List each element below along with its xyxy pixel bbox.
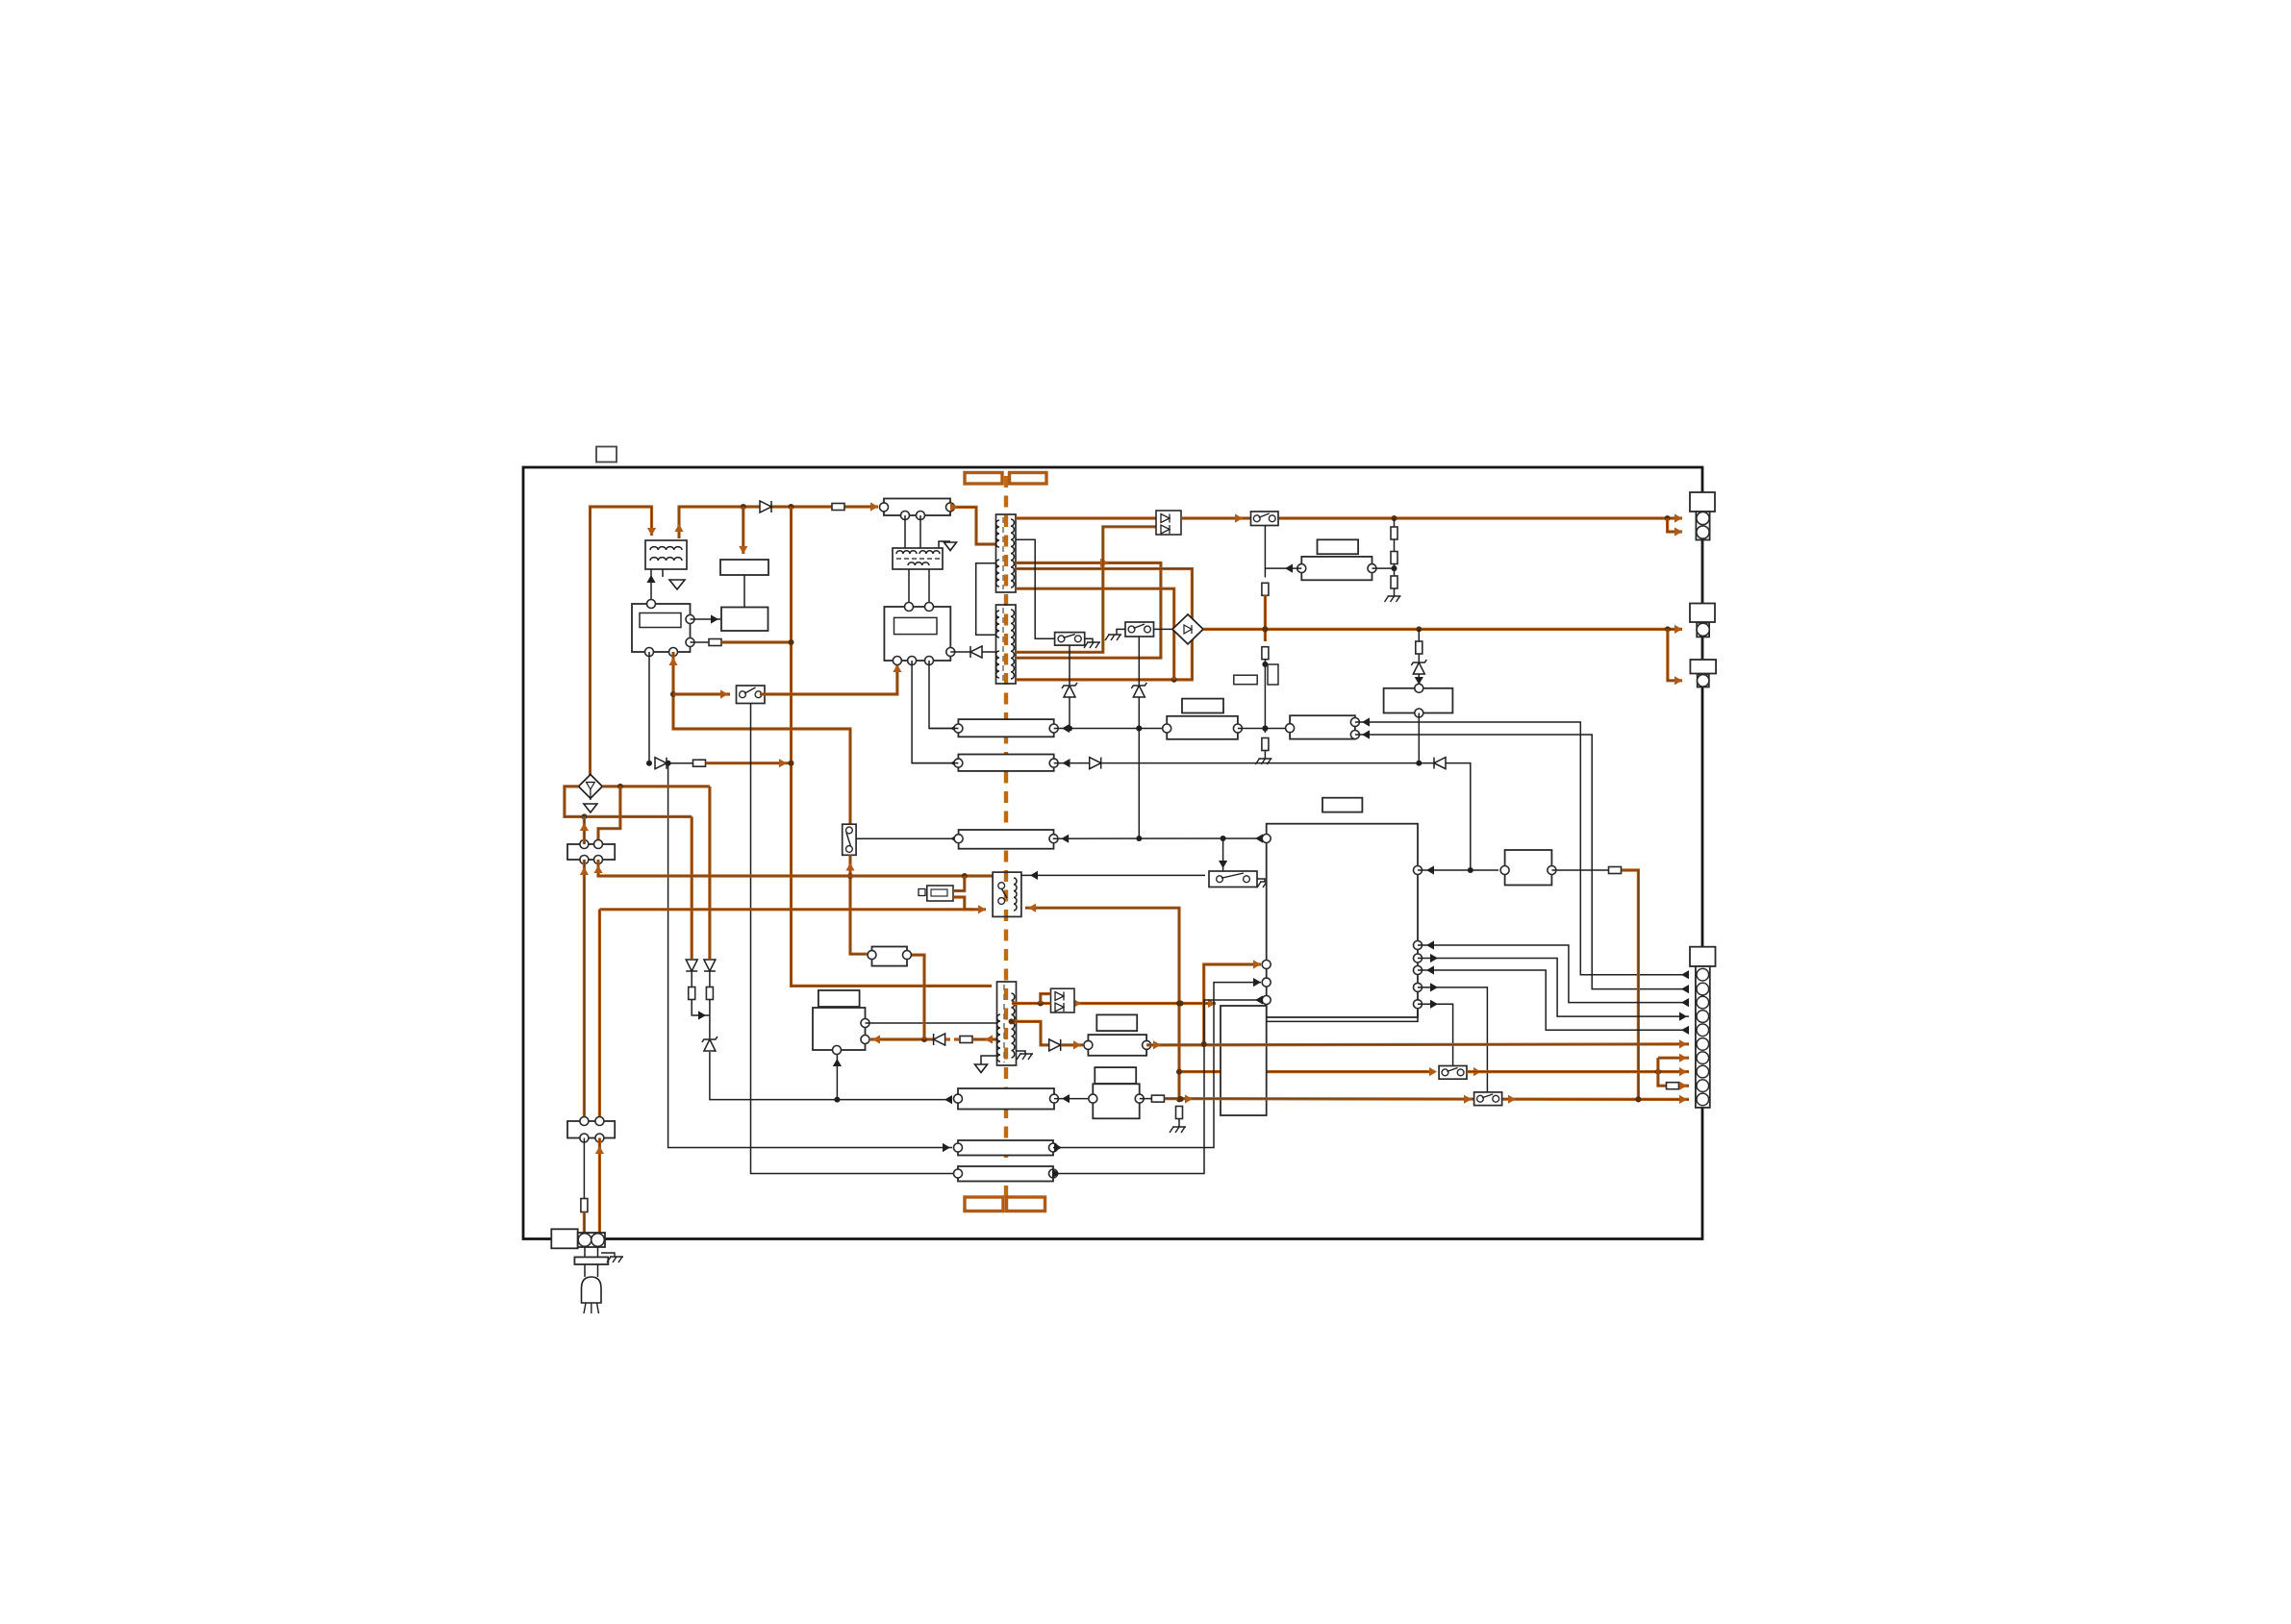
connector CN502 outline [567, 844, 615, 860]
diode D507 on system line [1434, 758, 1446, 769]
pin J506 left [954, 1143, 963, 1152]
resistor R509 [1391, 576, 1397, 588]
ground frame under D508 [584, 804, 597, 812]
ground at R506 [1255, 759, 1271, 764]
diode D506 on system line [1090, 758, 1101, 769]
wire CN-D pin1 line [1355, 717, 1689, 979]
wire CN-D pin2 line [1355, 730, 1689, 993]
wire R508-R509 [1392, 564, 1397, 577]
wire B507 to fuse [1551, 869, 1608, 871]
wire relay bus 2 [599, 905, 986, 913]
wire S508 to B508 [845, 855, 872, 959]
wire mid rail branch to CN-C [1668, 629, 1682, 685]
label box IC601 [1322, 798, 1362, 812]
ground at inlet [607, 1257, 623, 1262]
wire 16V rail to S506 [1179, 1070, 1432, 1073]
wire +B rail branch to CN-A pin2 [1668, 518, 1682, 537]
wire R505 to trimmer [1262, 660, 1268, 734]
wire branch to S505 [1219, 838, 1227, 871]
wire DD2 output to IC602 [1073, 999, 1216, 1008]
wire T505 to D513 main [1012, 1001, 1051, 1007]
wire S504 ground hook [1085, 638, 1093, 642]
wire border link B-C [1701, 637, 1703, 660]
pin J509 right [1050, 1094, 1059, 1103]
pin J505 left [954, 759, 963, 767]
pin J505 right [1049, 759, 1058, 767]
wire S505 left feed [1021, 871, 1205, 880]
wire TH501 stub1 [953, 876, 965, 891]
module B507 [1505, 850, 1552, 886]
ferrite filter block [574, 1257, 608, 1264]
node secondary bar bottom-right [1007, 1197, 1045, 1212]
wire R509 to ground [1394, 588, 1396, 596]
harness J511 [959, 830, 1054, 849]
pin J506 right [1049, 1143, 1058, 1152]
arrow into S507 [1464, 1095, 1472, 1104]
schematic border frame [523, 467, 1702, 1239]
wire J501 right to divider [1372, 567, 1395, 569]
wire ZD504 to J509 [710, 1052, 952, 1104]
wire S505 ground hook [1257, 879, 1265, 882]
wire ZD501 to B506 [1415, 674, 1423, 688]
wire D513 upper hook [1041, 994, 1051, 1004]
wire IC501 to driver box [691, 614, 721, 623]
wire pin8 tail [1467, 1067, 1689, 1076]
pin IC501 right-1 [686, 615, 694, 624]
pin CN501 bottom-1 [901, 512, 910, 520]
wire CN501 down-2 [919, 515, 921, 548]
connector CN-D body [1696, 966, 1710, 1108]
pin J503 right [1233, 724, 1242, 733]
fuse R515 [1151, 1095, 1164, 1102]
wire IC502 feedback-1 [912, 661, 958, 767]
wire S508 sense [856, 835, 958, 843]
wire B506 to system line [1416, 713, 1422, 766]
node primary bar bottom-left [965, 1197, 1003, 1212]
resistor R510 [1416, 641, 1422, 654]
label box CN-D [1690, 947, 1716, 966]
pin IC502 bottom-2 [908, 657, 917, 665]
resistor R507 [1391, 527, 1397, 539]
wire mid rail to CN-B [1203, 625, 1682, 634]
transformer T505 [997, 982, 1017, 1065]
wire R512 to zener [709, 1000, 711, 1038]
diode D511 [934, 1034, 945, 1045]
pin IC601 right-5 [1414, 983, 1422, 991]
label box PS-ERR [1318, 539, 1359, 554]
pin CN502 top-1 [580, 840, 589, 849]
wire S507 control line [1418, 983, 1487, 1092]
wire loop down diode leg2 [708, 787, 711, 959]
wire R510 to ZD501 [1418, 654, 1420, 662]
connector CN-B body [1697, 623, 1709, 637]
pin CN501 left [880, 503, 889, 512]
wire IC601 to B507 [1418, 865, 1498, 874]
label box J510 [1095, 1067, 1136, 1084]
pin J507 right [1049, 1169, 1058, 1178]
wire D508 branch to CN502 [598, 787, 620, 839]
wire CN503 top2 feed [595, 910, 604, 1123]
wire CN501 to T503 primary [950, 503, 996, 544]
wire S501 to converter [760, 664, 902, 694]
zener ZD503 [1062, 683, 1077, 697]
harness J505 [958, 755, 1053, 771]
connector AC inlet [578, 1233, 605, 1247]
wire +B divider [1394, 518, 1396, 527]
relay K502 outline [993, 872, 1021, 916]
module FL501 inlet filter [551, 1229, 577, 1248]
wire IC502 to T504 primary [950, 651, 970, 653]
connector CN-C body [1698, 674, 1709, 687]
wire J503 to S502 chain [1238, 726, 1290, 732]
wire J502 line [1054, 724, 1168, 733]
wire J505 left feed [912, 762, 958, 764]
ground at R509 [1385, 596, 1401, 602]
module IC502 outline [884, 607, 950, 661]
diode D510 [704, 960, 716, 971]
pin CN502 bottom-1 [580, 856, 589, 864]
zener ZD504 [702, 1037, 718, 1051]
ground at S505 [1257, 882, 1273, 887]
wire T502 to M502-2 [928, 569, 930, 607]
harness J502 [958, 719, 1053, 737]
wire R507-R508 [1394, 539, 1396, 552]
wire R504 to R505 [1262, 595, 1268, 641]
label box CN-C [1690, 660, 1716, 674]
wire S506 control line [1418, 1000, 1453, 1066]
pin IC502 bottom-3 [925, 657, 934, 665]
wire IC502 feedback-2 [929, 661, 958, 733]
module B506 outline [1384, 688, 1453, 713]
wire CN502 top1 up [580, 816, 589, 844]
pin J502 left [954, 724, 963, 733]
zener ZD501 [1411, 660, 1426, 674]
module B508 outline [872, 947, 908, 966]
ground at R521 [1170, 1127, 1186, 1133]
pin CN501 bottom-2 [917, 512, 925, 520]
module IC602 driver [1221, 1006, 1267, 1115]
node secondary bar top-right [1010, 473, 1047, 485]
pin CN502 top-2 [594, 840, 603, 849]
resistor R508 [1391, 552, 1397, 564]
pin CN502 bottom-2 [594, 856, 603, 864]
rectifier D505 bridge diamond [1172, 614, 1203, 644]
trimmer VR501 [1268, 664, 1278, 685]
switch S507 [1474, 1092, 1502, 1106]
transformer T503 main [996, 514, 1017, 592]
wire D511 dashed link [945, 1037, 960, 1040]
pin B506 top [1415, 684, 1423, 692]
diode D512 [1049, 1039, 1061, 1051]
wire IC601 sense line [1053, 834, 1263, 842]
wire 5V rail to CN-D pin6 [1146, 1039, 1689, 1049]
wire K501 to Q501 [743, 575, 745, 608]
wire pin7 vertical [1658, 1058, 1666, 1086]
rectifier D508 bridge diamond [579, 775, 603, 801]
switch S506 [1439, 1066, 1467, 1080]
wire system line right [1054, 759, 1471, 870]
wire T505 left frame hook [981, 1056, 997, 1064]
label box VR501 [1234, 675, 1257, 685]
wire T504 sec tap1 up to rectifier [1016, 527, 1156, 653]
harness J504 [1290, 715, 1355, 738]
wire D503 to T504 [982, 651, 996, 653]
wire IC503 drive [870, 1035, 919, 1043]
pin CN501 right [946, 503, 955, 512]
pin IC601 left-4 [1262, 996, 1271, 1005]
rectifier D504 dual diode [1156, 511, 1181, 535]
wire R511 join [692, 1000, 710, 1020]
wire J510 to fuse [1140, 1094, 1157, 1103]
pin B507 left [1500, 866, 1509, 875]
wire border link A-B [1701, 540, 1703, 604]
label box J508 [1096, 1014, 1137, 1031]
wire S502 sense chain [1264, 526, 1266, 578]
switch S505 cover [1209, 871, 1257, 887]
pin CN503 bottom-2 [595, 1134, 604, 1142]
pin IC501 bottom-1 [645, 648, 654, 657]
diode D501 on AC bus [760, 501, 771, 512]
pin IC601 right-2 [1414, 941, 1422, 950]
wire T502 to M502-1 [908, 569, 910, 607]
transformer T504 aux [996, 605, 1017, 684]
wire loop down diode leg1 [691, 816, 693, 959]
pin J503 left [1163, 724, 1171, 733]
connector CN503 outline [567, 1121, 615, 1138]
wire F502 orange drop [1622, 870, 1641, 1102]
switch S504 interlock [1055, 633, 1085, 646]
wire AC live to line filter [591, 507, 657, 775]
connector CN-A body [1696, 512, 1709, 540]
wire D508 right out [602, 784, 710, 789]
pin IC601 left-2 [1262, 961, 1271, 969]
wire S504 lever chain [1069, 645, 1070, 685]
wire T505 secondary ground [1017, 1051, 1026, 1054]
harness J507 [958, 1166, 1053, 1182]
pin IC503 bottom [833, 1046, 842, 1055]
wire CN-D pin4 line [1418, 954, 1689, 1021]
harness J501 [1301, 557, 1372, 580]
pin IC601 right-3 [1414, 954, 1422, 962]
wire K502 coil return [1025, 904, 1182, 1103]
page frame note box [596, 447, 617, 462]
diode D509 [686, 960, 697, 971]
label box J503 [1182, 699, 1223, 713]
thermal protector TH501 [919, 886, 953, 901]
pin IC503 right-1 [861, 1019, 869, 1028]
ground frame under L501 [669, 580, 685, 589]
zener ZD502 [1131, 683, 1146, 697]
wire CN-D pin3 line [1418, 940, 1689, 1007]
wire D512 out [1061, 1040, 1083, 1049]
wire S503 lever chain [1138, 637, 1140, 685]
wire J506 to IC601 [1053, 978, 1261, 1152]
transformer T502 filter [893, 548, 943, 569]
pin CN503 bottom-1 [580, 1134, 589, 1142]
wire F503 to inlet [583, 1212, 586, 1234]
ground at S504 [1084, 642, 1100, 648]
fuse R502 [709, 639, 721, 646]
module IC503 outline [813, 1008, 866, 1050]
pin IC601 left-1 [1262, 835, 1271, 843]
wire D509 chain [691, 971, 692, 987]
harness J508 [1088, 1035, 1146, 1056]
harness J503 [1167, 716, 1238, 739]
pin IC601 left-3 [1262, 978, 1271, 987]
wire J506 left feed [666, 761, 952, 1152]
pin J501 right [1368, 564, 1376, 573]
diode D502 [655, 758, 667, 769]
wire branch to relay coil box [739, 507, 747, 554]
rectifier D513 dual diode [1051, 988, 1075, 1012]
fuse R513 [960, 1037, 972, 1043]
fuse R514 [1667, 1083, 1679, 1089]
wire IC501 right-2 feed [691, 641, 711, 643]
wire R506 to ground [1264, 751, 1266, 760]
pin J508 right [1143, 1040, 1151, 1049]
resistor R504 [1262, 583, 1269, 595]
switch S502 main relay contact [1251, 512, 1279, 526]
relay K501 coil box [720, 560, 768, 575]
wire ZD502 down to sense line [1136, 697, 1142, 841]
wire T503-T504 loop A [1016, 559, 1161, 658]
wire line filter out to fuse bus [674, 502, 878, 538]
harness J506 [958, 1140, 1053, 1156]
wire T503 sec tap1 to rectifier [1016, 516, 1156, 519]
switch S501 standby [737, 686, 766, 704]
diode D503 [970, 646, 982, 658]
wire T503 primary return [976, 563, 996, 636]
node primary bar top-left [965, 473, 1002, 485]
pin B508 right [903, 951, 912, 960]
module IC501 inner block [640, 613, 681, 628]
wire main vertical bus B+ [792, 507, 993, 986]
pin J511 right [1049, 835, 1058, 843]
wire R502 to B+ bus [721, 639, 794, 645]
pin J508 left [1084, 1040, 1093, 1049]
pin B506 bottom [1415, 709, 1423, 717]
ground at S503 [1105, 635, 1121, 640]
wire RB right drop [906, 955, 924, 1039]
module IC601 system control [1267, 824, 1418, 1017]
wire 12V rail to CN-D pin10 [1165, 1094, 1689, 1104]
wire mid rail sense [1418, 629, 1420, 641]
pin J501 left [1297, 564, 1306, 573]
wire IC501 VCC from switch bus [668, 652, 850, 824]
pin B508 left [868, 951, 876, 960]
label box CN-B [1690, 604, 1715, 623]
wire drive junction to diode [919, 1037, 933, 1042]
wire R521 to ground [1178, 1119, 1180, 1127]
wire R513 to T505 [972, 1035, 997, 1043]
wire T503 tap C [1016, 588, 1174, 680]
wire T503 to S504 [1016, 539, 1055, 638]
driver box Q501 [721, 608, 768, 632]
wire branch to IC503 bottom [833, 1055, 842, 1100]
resistor R521 [1176, 1107, 1183, 1119]
pin IC501 right-2 [686, 638, 694, 647]
wire R514 to pin9 [1679, 1082, 1689, 1090]
label box IC503 [818, 990, 860, 1007]
resistor R511 [689, 987, 695, 1000]
wire T502 ground hook [939, 541, 950, 548]
wire TH501 stub2 [953, 897, 973, 910]
arrow out of S507 [1508, 1095, 1516, 1104]
junction box CN501 outline [884, 499, 950, 516]
AC plug [582, 1277, 602, 1313]
wire CN-D pin5 line [1418, 965, 1689, 1035]
pin IC502 top-1 [905, 603, 914, 612]
wire S501 lever sense [751, 704, 959, 1174]
fuse F501 [832, 504, 844, 511]
pin J507 left [954, 1169, 963, 1178]
wire R503 to B+ bus [706, 759, 794, 767]
pin CN503 top-2 [595, 1117, 604, 1126]
ground frame at T502 [944, 542, 957, 551]
pin IC502 bottom-1 [893, 657, 901, 665]
fuse R503 [693, 760, 706, 766]
switch S508 power [843, 824, 856, 855]
wire inlet to plug [585, 1247, 598, 1278]
pin J510 right [1135, 1094, 1144, 1103]
pin IC601 right-1 [1414, 866, 1422, 875]
pin IC503 right-2 [861, 1036, 869, 1044]
pin J504 right-2 [1350, 731, 1359, 739]
resistor R512 [706, 987, 713, 1000]
wire S503 to D505 [1154, 628, 1173, 630]
wire J502 left feed [929, 728, 958, 730]
wire CN503 line to inlet [595, 1138, 604, 1234]
pin IC601 right-4 [1414, 966, 1422, 975]
wire CN503 to fuse F503 [583, 1138, 585, 1199]
fuse F503 [581, 1199, 588, 1212]
wire IC501 bottom-1 sense [646, 652, 652, 766]
transformer L501 line filter [645, 540, 687, 577]
wire S503 ground hook [1117, 629, 1125, 635]
wire J501 left to S502 chain [1265, 564, 1301, 573]
fuse F502 [1609, 867, 1622, 874]
wire L501 to power module [646, 569, 655, 604]
module IC502 inner block [894, 617, 938, 634]
harness J509 [958, 1088, 1054, 1110]
label box CN-A [1690, 492, 1715, 512]
switch S503 door [1125, 622, 1154, 637]
module J510 outline [1093, 1084, 1139, 1118]
wire ZD503 to sense line [1067, 697, 1072, 732]
pin J504 left [1286, 724, 1295, 733]
resistor R505 [1262, 647, 1269, 660]
pin B507 right [1548, 866, 1556, 875]
wire start switch branch [673, 689, 730, 698]
arrow into S506 [1429, 1067, 1437, 1076]
net isolation barrier (orange dashed) [1004, 476, 1008, 1204]
module IC501 outline [632, 604, 691, 652]
pin J502 right [1049, 724, 1058, 733]
wire J509 to J510 [1054, 1094, 1088, 1103]
wire inlet ground hook [601, 1253, 615, 1257]
resistor R506 [1262, 738, 1269, 751]
wire +B rail to CN-A [1181, 513, 1682, 522]
pin IC502 right [946, 648, 955, 657]
wire CN502 bottom1 down [580, 860, 589, 1123]
pin J504 right-1 [1350, 718, 1359, 727]
pin J509 left [954, 1094, 963, 1103]
wire D508 left loop [565, 787, 692, 820]
pin IC601 right-6 [1414, 1000, 1422, 1009]
wire VCC to IC601 [1201, 960, 1261, 1047]
ground frame at T505 left [975, 1064, 988, 1073]
pin IC501 bottom-2 [669, 648, 678, 657]
